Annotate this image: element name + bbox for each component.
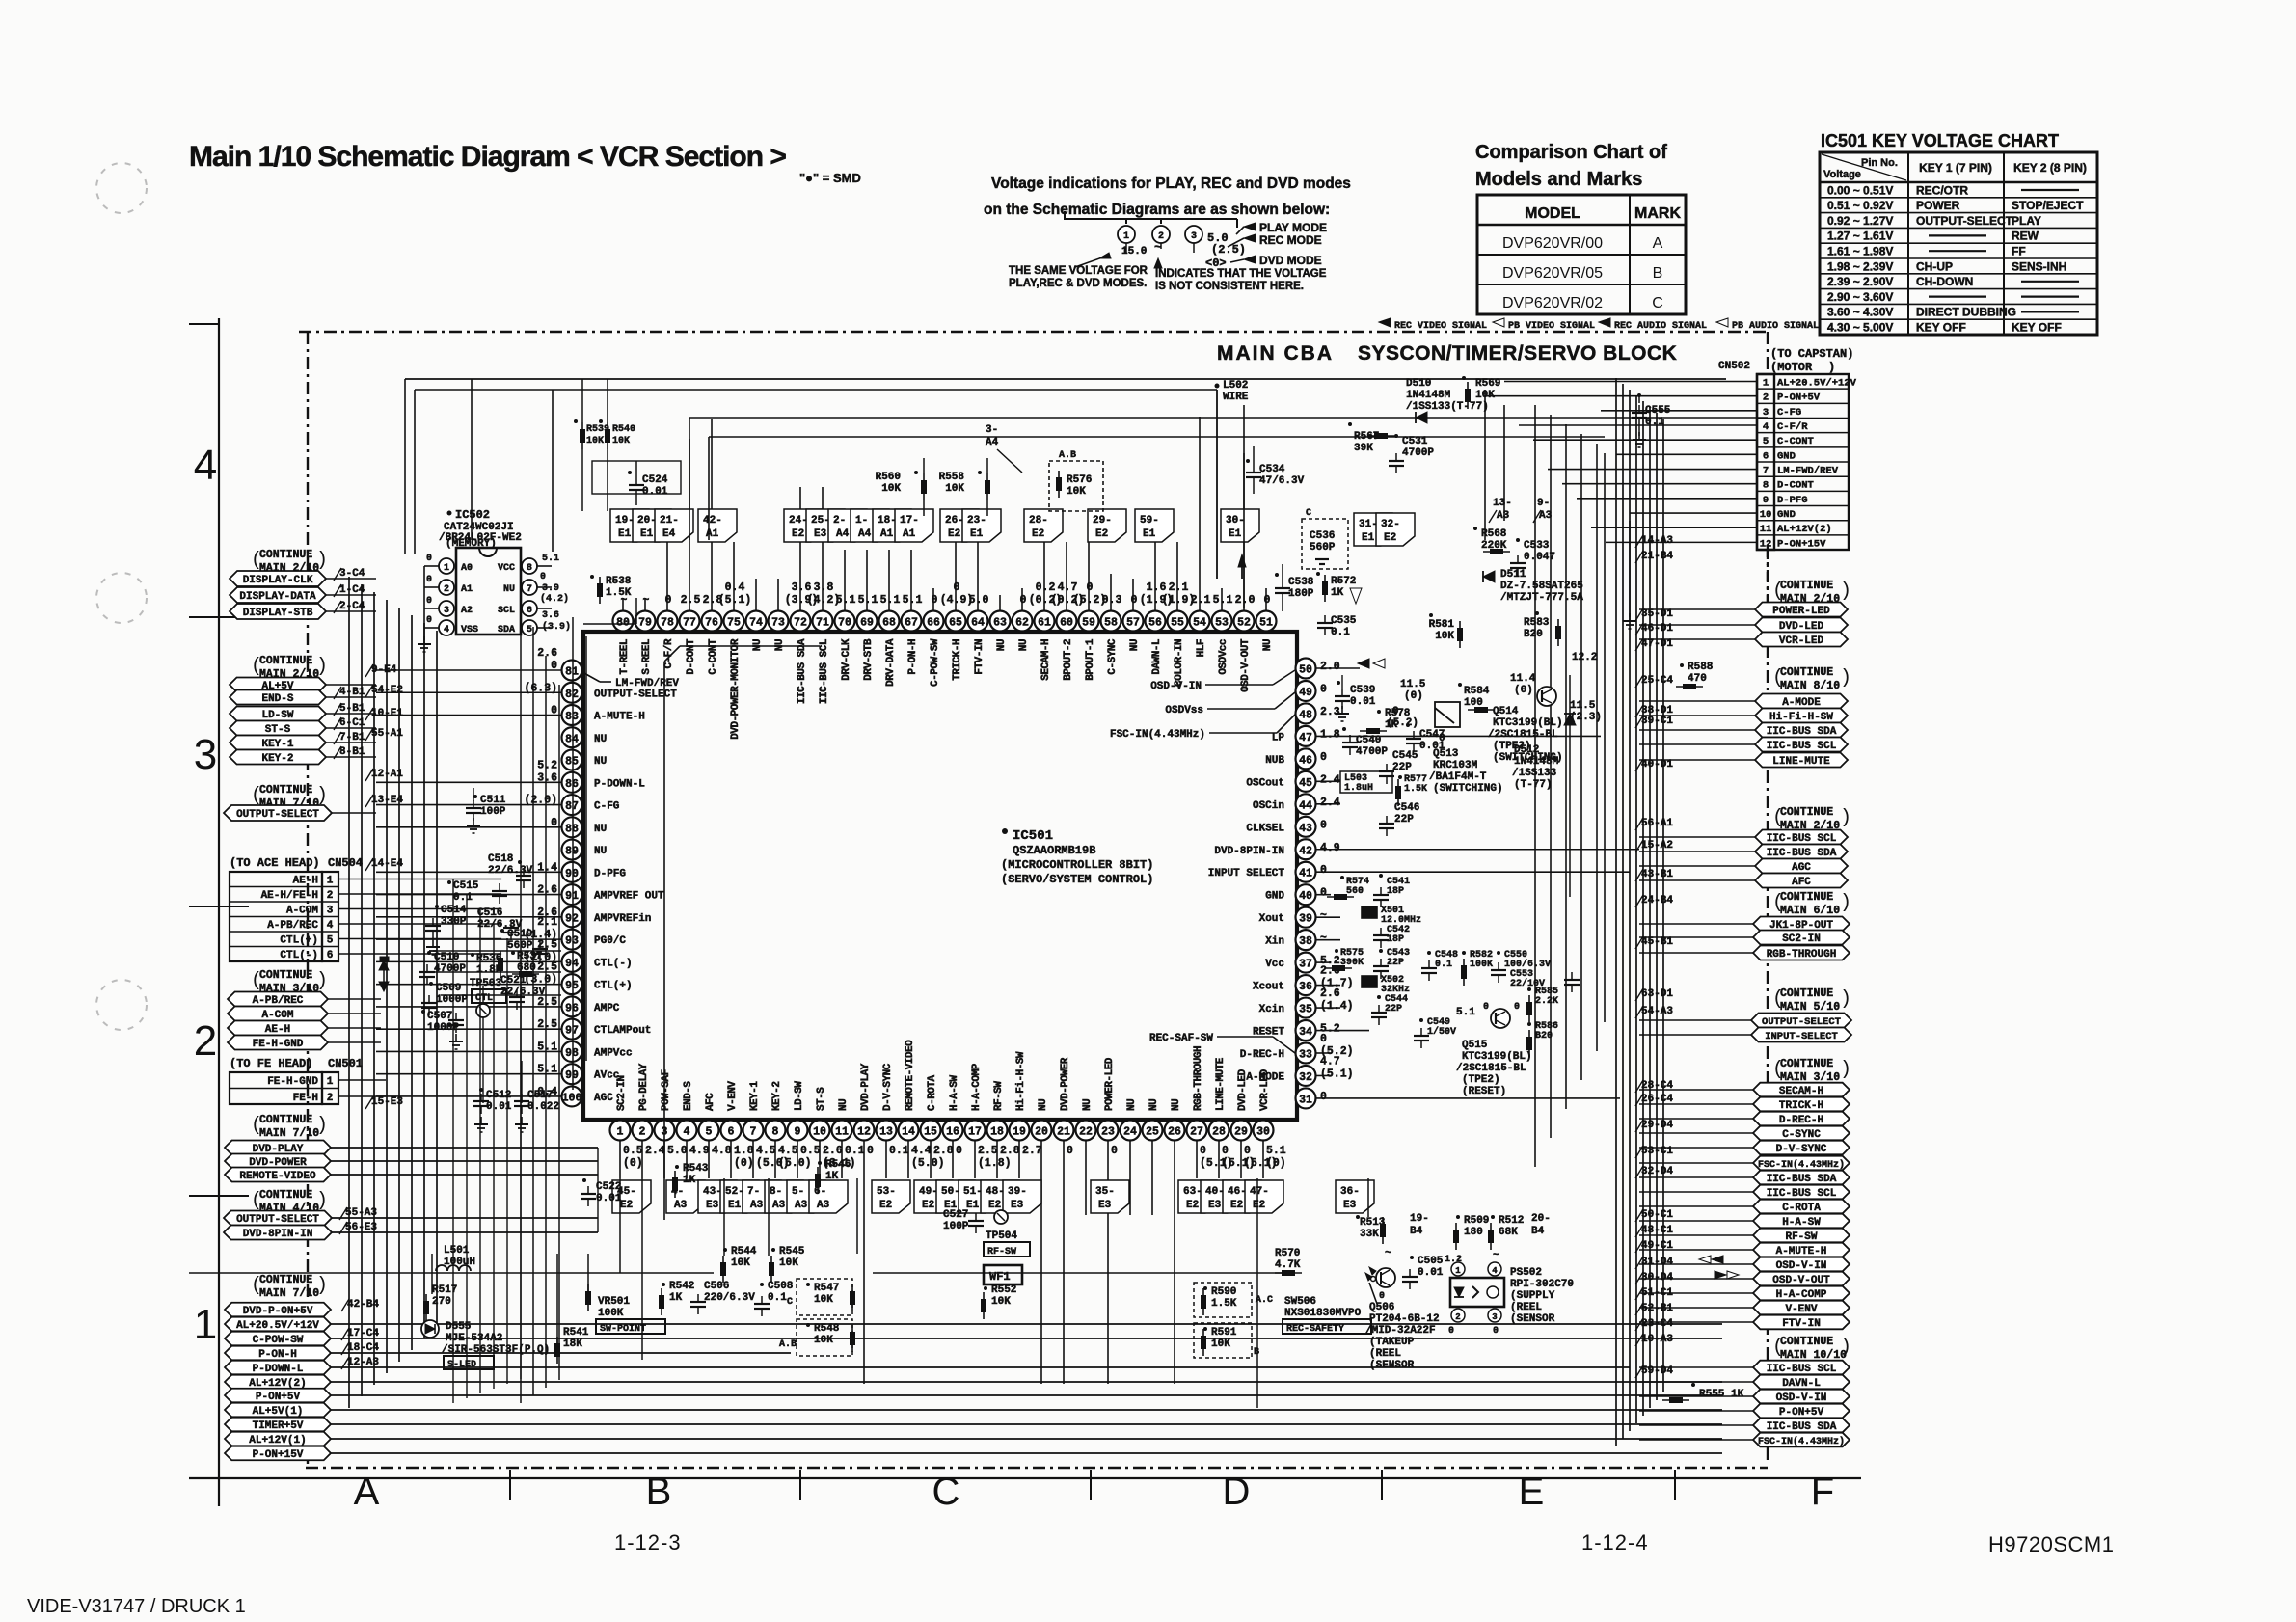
svg-text:86: 86 <box>565 778 579 791</box>
svg-text:28-C4: 28-C4 <box>1641 1080 1673 1092</box>
svg-text:94: 94 <box>565 958 579 970</box>
svg-text:CONTINUE: CONTINUE <box>259 1114 312 1126</box>
node tag 55-A1 <box>365 728 403 741</box>
svg-text:AL+20.5V/+12V: AL+20.5V/+12V <box>1777 378 1857 390</box>
svg-text:44: 44 <box>1299 799 1312 812</box>
svg-text:43-B1: 43-B1 <box>1641 869 1673 880</box>
svg-text:10: 10 <box>813 1126 826 1139</box>
node A-MUTE-H right c <box>1639 1243 1850 1257</box>
svg-text:R540: R540 <box>612 424 635 435</box>
svg-text:CTLAMPout: CTLAMPout <box>594 1025 651 1037</box>
svg-text:CONTINUE: CONTINUE <box>1780 580 1833 592</box>
svg-text:A4: A4 <box>836 528 850 540</box>
svg-text:2.4: 2.4 <box>1320 773 1340 786</box>
svg-text:19-: 19- <box>1410 1213 1429 1225</box>
svg-text:4.8: 4.8 <box>712 1145 732 1157</box>
svg-text:/SIR-563ST3F(P.Q): /SIR-563ST3F(P.Q) <box>442 1344 550 1356</box>
node tag 39-E3 <box>1003 1180 1041 1213</box>
svg-text:KEY 2 (8 PIN): KEY 2 (8 PIN) <box>2013 161 2087 175</box>
resistor R536 <box>471 951 503 978</box>
varactor VR501 <box>585 1284 665 1335</box>
svg-text:RGB-THROUGH: RGB-THROUGH <box>1767 949 1837 960</box>
svg-text:40-D1: 40-D1 <box>1641 759 1673 770</box>
svg-text:IC501 KEY VOLTAGE CHART: IC501 KEY VOLTAGE CHART <box>1821 131 2059 150</box>
svg-text:(SENSOR: (SENSOR <box>1510 1313 1555 1325</box>
node OSDVss leader <box>1165 692 1295 716</box>
svg-text:(: ( <box>1772 892 1784 914</box>
node RGB-THROUGH right <box>1639 946 1850 961</box>
svg-text:14-A3: 14-A3 <box>1641 535 1673 547</box>
svg-text:IIC-BUS SDA: IIC-BUS SDA <box>1767 1421 1837 1433</box>
svg-text:0.01: 0.01 <box>642 486 668 498</box>
IC501 pin 18 <box>987 1081 1020 1157</box>
svg-text:LM-FWD/REV: LM-FWD/REV <box>615 678 679 689</box>
svg-text:D-CONT: D-CONT <box>686 638 697 675</box>
svg-text:"●" = SMD: "●" = SMD <box>799 171 861 185</box>
svg-text:RF-SW: RF-SW <box>993 1081 1005 1111</box>
svg-text:AL+12V(2): AL+12V(2) <box>1777 524 1832 535</box>
svg-text:R546: R546 <box>825 1159 851 1171</box>
node tag 42-A1 <box>698 509 737 542</box>
svg-text:QSZAAORMB19B: QSZAAORMB19B <box>1013 844 1095 857</box>
op-amp IC501 body <box>583 632 1297 1120</box>
svg-text:0.3: 0.3 <box>1102 594 1122 607</box>
node OUTPUT-SELECT right <box>1639 1014 1851 1029</box>
svg-text:1K: 1K <box>1331 587 1344 599</box>
svg-text:SW-POINT: SW-POINT <box>600 1324 646 1335</box>
svg-text:IIC-BUS SDA: IIC-BUS SDA <box>1767 848 1837 859</box>
svg-text:R568: R568 <box>1481 528 1507 540</box>
svg-text:CONTINUE: CONTINUE <box>1780 806 1833 819</box>
connector CN502 body <box>1757 374 1849 550</box>
svg-text:AMPC: AMPC <box>594 1003 620 1014</box>
svg-text:CTL(+): CTL(+) <box>280 935 318 947</box>
node A-COM <box>228 1007 381 1022</box>
svg-text:1.27 ~ 1.61V: 1.27 ~ 1.61V <box>1827 230 1893 243</box>
svg-text:11: 11 <box>835 1126 849 1139</box>
svg-text:C-CONT: C-CONT <box>1777 436 1814 447</box>
svg-text:1.8: 1.8 <box>1320 728 1340 741</box>
svg-text:R548: R548 <box>814 1323 840 1335</box>
node H-A-COMP right c <box>1639 1286 1850 1301</box>
CN504 pin 5 CTL(+) <box>280 935 386 947</box>
svg-text:THE SAME VOLTAGE FOR: THE SAME VOLTAGE FOR <box>1009 265 1148 277</box>
svg-text:Xin: Xin <box>1265 936 1284 948</box>
node tag 51-C1 <box>1635 1287 1673 1300</box>
svg-text:47-D1: 47-D1 <box>1641 638 1673 650</box>
svg-text:C555: C555 <box>1645 405 1671 417</box>
svg-text:1.2: 1.2 <box>1445 1255 1462 1265</box>
svg-text:19: 19 <box>1013 1126 1026 1139</box>
node tag 39-C1 <box>1635 716 1673 728</box>
node AGC right b <box>1639 859 1848 875</box>
svg-text:28: 28 <box>1212 1126 1226 1139</box>
node tag 20-E1 <box>633 509 671 542</box>
node tag 25-C4 <box>1635 675 1673 688</box>
svg-text:): ) <box>1840 988 1851 1011</box>
node DISPLAY-DATA <box>230 587 376 603</box>
svg-text:7-: 7- <box>747 1186 760 1198</box>
IC501 pin 65 <box>940 581 974 681</box>
svg-text:63-: 63- <box>1183 1186 1202 1198</box>
svg-text:): ) <box>1840 1059 1851 1081</box>
node KEY-1 <box>230 732 376 750</box>
IC502 pin 8 <box>498 558 552 574</box>
svg-text:IIC-BUS SDA: IIC-BUS SDA <box>1767 726 1837 738</box>
svg-text:Voltage: Voltage <box>1823 169 1861 180</box>
svg-text:1: 1 <box>617 1126 624 1139</box>
IC501 pin 92 <box>537 906 651 928</box>
IC501 pin 51 <box>1256 594 1277 651</box>
svg-text:DVP620VR/00: DVP620VR/00 <box>1502 235 1603 252</box>
svg-text:A3: A3 <box>1539 510 1553 522</box>
svg-text:0.2: 0.2 <box>1036 581 1056 594</box>
svg-text:(5.0): (5.0) <box>911 1157 945 1170</box>
svg-text:INPUT SELECT: INPUT SELECT <box>1208 868 1285 879</box>
svg-text:CONTINUE: CONTINUE <box>259 549 312 561</box>
CN502 pin 2 P-ON+5V <box>1763 392 1821 404</box>
svg-text:1K: 1K <box>825 1171 839 1182</box>
svg-text:1.8uH: 1.8uH <box>1344 783 1373 794</box>
node D-REC-H right c <box>1639 1112 1850 1126</box>
svg-text:0: 0 <box>867 1145 874 1157</box>
node tag 15-A2 <box>1635 840 1673 852</box>
svg-text:1-: 1- <box>855 515 868 527</box>
svg-text:30: 30 <box>1256 1126 1270 1139</box>
capacitor C515 <box>447 880 507 904</box>
svg-text:6-: 6- <box>814 1186 826 1198</box>
node DAVN-L right d <box>1639 1375 1850 1390</box>
svg-text:DVD-8PIN-IN: DVD-8PIN-IN <box>243 1229 313 1240</box>
svg-text:41: 41 <box>1299 868 1312 880</box>
SMD note <box>799 171 861 185</box>
svg-text:OSDVss: OSDVss <box>1165 705 1203 716</box>
svg-text:C508: C508 <box>768 1281 794 1292</box>
node tag 53-C1 <box>1635 1146 1673 1158</box>
IC501 pin 66 <box>924 594 944 687</box>
svg-text:(SENSOR: (SENSOR <box>1369 1360 1415 1371</box>
svg-text:E1: E1 <box>970 528 984 540</box>
node END-S <box>230 687 376 705</box>
svg-text:83: 83 <box>565 711 579 723</box>
capacitor C544 <box>1371 994 1408 1025</box>
svg-text:LP: LP <box>1272 732 1285 743</box>
svg-text:C-CONT: C-CONT <box>708 638 719 675</box>
svg-text:IIC-BUS SCL: IIC-BUS SCL <box>1767 833 1837 845</box>
diode D555 <box>421 1320 550 1370</box>
svg-text:5.1: 5.1 <box>858 594 878 607</box>
resistor R558 <box>939 458 990 516</box>
svg-text:): ) <box>1840 581 1851 603</box>
capacitor C546 <box>1379 802 1419 836</box>
svg-text:A1: A1 <box>706 528 719 540</box>
svg-text:A1: A1 <box>903 528 916 540</box>
svg-text:54: 54 <box>1193 617 1206 630</box>
svg-text:SCL: SCL <box>498 606 515 616</box>
svg-text:1.61 ~ 1.98V: 1.61 ~ 1.98V <box>1827 245 1893 258</box>
svg-text:20: 20 <box>1035 1126 1048 1139</box>
svg-text:0: 0 <box>1320 864 1327 877</box>
transistor Q506 <box>1365 1267 1440 1371</box>
svg-text:3.6: 3.6 <box>792 581 812 594</box>
comparison chart title <box>1475 142 1667 190</box>
svg-text:0.51 ~ 0.92V: 0.51 ~ 0.92V <box>1827 199 1893 212</box>
capacitor C533 <box>1510 538 1555 576</box>
resistor R538 <box>590 575 632 604</box>
resistor R560 <box>876 458 927 516</box>
svg-text:MAIN 6/10: MAIN 6/10 <box>1780 905 1840 917</box>
IC501 pin 84 <box>562 727 608 747</box>
node tag 52-B1 <box>1635 1303 1673 1315</box>
resistor R583 <box>1524 611 1561 646</box>
IC501 pin 33 <box>1240 1033 1354 1064</box>
node tag 23-C4 <box>1635 1318 1673 1331</box>
svg-text:A3: A3 <box>817 1200 830 1211</box>
svg-text:78: 78 <box>661 617 674 630</box>
svg-text:H-A-SW: H-A-SW <box>949 1074 960 1111</box>
svg-text:560: 560 <box>1346 886 1364 897</box>
svg-text:DRV-CLK: DRV-CLK <box>841 638 852 681</box>
svg-text:DRV-STB: DRV-STB <box>863 638 875 681</box>
svg-text:99: 99 <box>565 1069 579 1082</box>
CN502 pin 6 GND <box>1763 450 1796 462</box>
svg-text:10K: 10K <box>814 1335 833 1346</box>
svg-text:KEY-1: KEY-1 <box>261 739 293 750</box>
svg-text:59-D4: 59-D4 <box>1641 1365 1673 1377</box>
svg-text:~: ~ <box>643 594 650 607</box>
switch SW506 <box>1283 1277 1377 1336</box>
svg-text:30-: 30- <box>1226 515 1245 527</box>
svg-text:/BA1F4M-T: /BA1F4M-T <box>1429 771 1487 783</box>
node tag 10-A3 <box>1635 1334 1673 1346</box>
svg-text:/2SC1815-BL: /2SC1815-BL <box>1456 1063 1526 1074</box>
resistor R513 <box>1356 1215 1391 1259</box>
svg-text:10-A3: 10-A3 <box>1641 1334 1673 1345</box>
svg-text:3-: 3- <box>986 424 998 436</box>
svg-text:C511: C511 <box>480 795 506 806</box>
capacitor C536 <box>1302 508 1348 569</box>
svg-text:0: 0 <box>1320 683 1327 695</box>
svg-text:A1: A1 <box>880 528 894 540</box>
IC501 pin 43 <box>1246 817 1327 837</box>
resistor R586 <box>1526 1021 1558 1057</box>
svg-text:(1.8): (1.8) <box>978 1157 1012 1170</box>
node tag 24-B4 <box>1635 895 1673 907</box>
svg-text:E2: E2 <box>1186 1200 1199 1211</box>
svg-text:R581: R581 <box>1429 619 1455 631</box>
capacitor C519 <box>500 929 548 961</box>
svg-text:MARK: MARK <box>1634 205 1681 222</box>
svg-text:64: 64 <box>971 617 985 630</box>
svg-text:R588: R588 <box>1688 662 1714 673</box>
capacitor C516 <box>477 907 523 940</box>
svg-text:FTV-IN: FTV-IN <box>974 639 986 675</box>
inductor L501 <box>436 1245 475 1271</box>
svg-text:C509: C509 <box>436 983 461 994</box>
svg-text:DISPLAY-DATA: DISPLAY-DATA <box>239 591 316 603</box>
svg-text:S-REEL: S-REEL <box>641 638 653 675</box>
node tag 45-E2 <box>612 1180 651 1213</box>
svg-text:REC AUDIO SIGNAL: REC AUDIO SIGNAL <box>1614 321 1707 332</box>
svg-text:E3: E3 <box>814 528 827 540</box>
svg-text:91: 91 <box>565 890 579 903</box>
svg-text:STOP/EJECT: STOP/EJECT <box>2012 199 2084 212</box>
svg-text:E2: E2 <box>1384 532 1396 544</box>
IC501 pin 10 <box>810 1087 856 1170</box>
IC501 pin 64 <box>968 594 989 675</box>
svg-text:C521: C521 <box>500 975 527 987</box>
svg-text:BPOUT-2: BPOUT-2 <box>1063 639 1074 681</box>
svg-text:R545: R545 <box>779 1246 805 1257</box>
svg-text:WF1: WF1 <box>989 1270 1011 1284</box>
svg-text:36: 36 <box>1299 981 1312 993</box>
svg-text:CONTINUE: CONTINUE <box>1780 1336 1833 1348</box>
svg-text:KEY-1: KEY-1 <box>749 1081 761 1111</box>
svg-text:35: 35 <box>1299 1004 1312 1016</box>
svg-text:(TO ACE HEAD): (TO ACE HEAD) <box>230 856 320 870</box>
IC501 pin 88 <box>551 817 607 838</box>
svg-text:POWER-LED: POWER-LED <box>1772 606 1830 617</box>
IC501 pin 89 <box>562 840 608 860</box>
svg-text:CONTINUE: CONTINUE <box>259 969 312 982</box>
CN504 pin 1 AE-H <box>293 876 386 887</box>
svg-text:52-: 52- <box>725 1186 744 1198</box>
svg-text:DVD-LED: DVD-LED <box>1779 621 1824 633</box>
svg-text:E3: E3 <box>1011 1200 1024 1211</box>
node AL+5V <box>230 678 376 693</box>
resistor R577 <box>1395 774 1427 806</box>
IC501 pin 8 <box>766 1081 812 1170</box>
block header <box>1217 342 1677 365</box>
capacitor C507 <box>421 1010 464 1049</box>
svg-text:(RESET): (RESET) <box>1462 1086 1506 1097</box>
svg-text:2.4: 2.4 <box>1320 797 1340 809</box>
IC501 pin 80 <box>613 594 634 675</box>
svg-text:6: 6 <box>728 1126 735 1139</box>
node tag 38-D1 <box>1635 705 1673 717</box>
svg-text:R544: R544 <box>731 1246 757 1257</box>
svg-text:E1: E1 <box>1143 528 1156 540</box>
node tag 9-E4 <box>365 664 397 677</box>
svg-text:CN504: CN504 <box>328 856 363 870</box>
svg-text:C540: C540 <box>1356 735 1381 746</box>
svg-text:0: 0 <box>665 594 672 607</box>
svg-text:9: 9 <box>795 1126 801 1139</box>
svg-text:Hi-Fi-H-SW: Hi-Fi-H-SW <box>1769 712 1833 723</box>
svg-text:Q515: Q515 <box>1462 1040 1488 1051</box>
svg-text:DVP620VR/05: DVP620VR/05 <box>1502 265 1603 282</box>
svg-text:0: 0 <box>956 1145 962 1157</box>
svg-text:31: 31 <box>1299 1094 1312 1106</box>
svg-text:PT204-6B-12: PT204-6B-12 <box>1369 1313 1440 1325</box>
svg-text:FSC-IN(4.43MHz): FSC-IN(4.43MHz) <box>1110 729 1205 741</box>
svg-text:1: 1 <box>1455 1266 1461 1276</box>
node tag 32-E2 <box>1376 513 1415 546</box>
svg-text:4: 4 <box>1492 1266 1498 1276</box>
IC501 pin 16 <box>943 1074 963 1157</box>
svg-text:2.6: 2.6 <box>537 647 557 660</box>
svg-text:(TO CAPSTAN): (TO CAPSTAN) <box>1770 347 1853 361</box>
svg-text:82: 82 <box>565 689 579 701</box>
svg-text:A.B: A.B <box>1059 450 1076 461</box>
svg-text:5.1: 5.1 <box>542 554 559 564</box>
svg-text:IC501: IC501 <box>1013 828 1053 844</box>
svg-text:10: 10 <box>1760 509 1772 521</box>
svg-text:18-: 18- <box>878 515 897 527</box>
svg-text:(TAKEUP: (TAKEUP <box>1369 1337 1415 1348</box>
svg-text:1N4148M: 1N4148M <box>1514 756 1559 768</box>
svg-text:DVD-POWER: DVD-POWER <box>1060 1057 1071 1111</box>
svg-text:5.1: 5.1 <box>1213 594 1233 607</box>
svg-text:0.047: 0.047 <box>1524 552 1555 563</box>
IC501 pin 34 <box>1253 1020 1340 1041</box>
svg-text:R558: R558 <box>939 472 965 483</box>
node FTV-IN right c <box>1639 1315 1850 1330</box>
resistor R552 <box>981 1284 1016 1319</box>
svg-text:0.01: 0.01 <box>486 1101 512 1113</box>
svg-text:3: 3 <box>444 606 449 616</box>
resistor R539 <box>574 379 609 511</box>
svg-text:3: 3 <box>1492 1312 1497 1322</box>
resistor R555 <box>1662 1383 1744 1403</box>
svg-text:17: 17 <box>968 1126 982 1139</box>
svg-text:1: 1 <box>1123 231 1129 242</box>
capacitor C518 <box>488 853 533 888</box>
node C-SYNC right c <box>1639 1126 1850 1141</box>
svg-text:220/6.3V: 220/6.3V <box>704 1292 755 1304</box>
svg-text:C: C <box>1652 295 1663 311</box>
svg-text:(MOTOR: (MOTOR <box>1770 361 1813 374</box>
svg-text:Models and Marks: Models and Marks <box>1475 169 1642 190</box>
svg-text:0.92 ~ 1.27V: 0.92 ~ 1.27V <box>1827 214 1893 228</box>
svg-text:96: 96 <box>565 1002 579 1014</box>
diode D511 <box>1483 569 1583 604</box>
svg-text:0.1: 0.1 <box>768 1292 787 1304</box>
svg-text:OUTPUT-SELECT: OUTPUT-SELECT <box>236 809 319 821</box>
svg-text:5.0: 5.0 <box>667 1145 688 1157</box>
svg-text:Comparison Chart of: Comparison Chart of <box>1475 142 1667 163</box>
svg-text:DVP620VR/02: DVP620VR/02 <box>1502 295 1603 311</box>
svg-text:24-B4: 24-B4 <box>1641 895 1673 906</box>
resistor R578 <box>1360 708 1411 734</box>
transistor Q515 <box>1456 1002 1532 1097</box>
svg-text:(SUPPLY: (SUPPLY <box>1510 1290 1555 1302</box>
IC501 pin 36 <box>1253 965 1354 996</box>
svg-text:R547: R547 <box>814 1283 839 1294</box>
svg-text:~: ~ <box>1320 933 1327 945</box>
svg-text:AGC: AGC <box>1792 862 1811 874</box>
svg-text:25: 25 <box>1146 1126 1159 1139</box>
IC501 pin 45 <box>1246 771 1339 792</box>
capacitor C505 <box>1402 1256 1444 1289</box>
svg-text:61: 61 <box>1038 617 1051 630</box>
capacitor C524 <box>592 461 681 505</box>
svg-text:E3: E3 <box>1343 1200 1357 1211</box>
svg-text:PLAY MODE: PLAY MODE <box>1259 221 1327 234</box>
svg-text:C527: C527 <box>943 1209 968 1221</box>
svg-text:1.98 ~ 2.39V: 1.98 ~ 2.39V <box>1827 259 1893 273</box>
svg-text:R542: R542 <box>669 1281 694 1292</box>
svg-text:RPI-302C70: RPI-302C70 <box>1510 1279 1574 1290</box>
footer page numbers <box>27 1530 2114 1617</box>
testpoint TP503 <box>470 978 506 1017</box>
svg-text:E2: E2 <box>879 1200 892 1211</box>
capacitor C522 <box>581 1178 622 1206</box>
svg-text:~: ~ <box>1493 1250 1499 1261</box>
svg-text:P-DOWN-L: P-DOWN-L <box>253 1364 304 1375</box>
svg-text:AMPVREF OUT: AMPVREF OUT <box>594 891 664 903</box>
svg-text:1: 1 <box>327 1076 334 1088</box>
